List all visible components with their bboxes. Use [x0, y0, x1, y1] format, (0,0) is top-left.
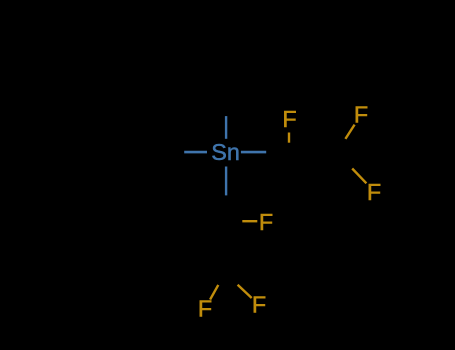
atom F6 (lower right of CF2 bottom group): [252, 292, 266, 318]
bond C3-F5 (gold half): [210, 285, 218, 300]
bond Sn-C2 bottom (blue half): [225, 167, 227, 196]
bond C4-F2 (gold half): [345, 125, 354, 139]
bond C4-F3 (gold half): [352, 169, 366, 184]
svg-text:F: F: [367, 179, 381, 205]
bond C3-F6 (gold half): [238, 285, 252, 298]
bond C1-F1 (gold half): [288, 133, 290, 143]
svg-text:F: F: [282, 106, 296, 132]
bond Sn-C1 right (blue half): [241, 151, 266, 154]
svg-text:F: F: [354, 102, 368, 128]
atom F4 (right of C2): [259, 209, 273, 235]
bond C2-F4 (gold half): [242, 220, 257, 222]
atom Sn (tin center): [211, 139, 240, 165]
atom F3 (right of CF2, upper group): [367, 179, 381, 205]
svg-text:Sn: Sn: [211, 139, 240, 165]
svg-text:F: F: [252, 292, 266, 318]
atom F5 (lower left of CF2 bottom group): [198, 295, 212, 321]
atom F1 (above C1): [282, 106, 296, 132]
svg-text:F: F: [259, 209, 273, 235]
bond Sn-CH3 left (blue half): [184, 151, 207, 154]
atom F2 (top of CF2, upper right): [354, 102, 368, 128]
bond Sn-CH3 top (blue half): [225, 116, 227, 139]
